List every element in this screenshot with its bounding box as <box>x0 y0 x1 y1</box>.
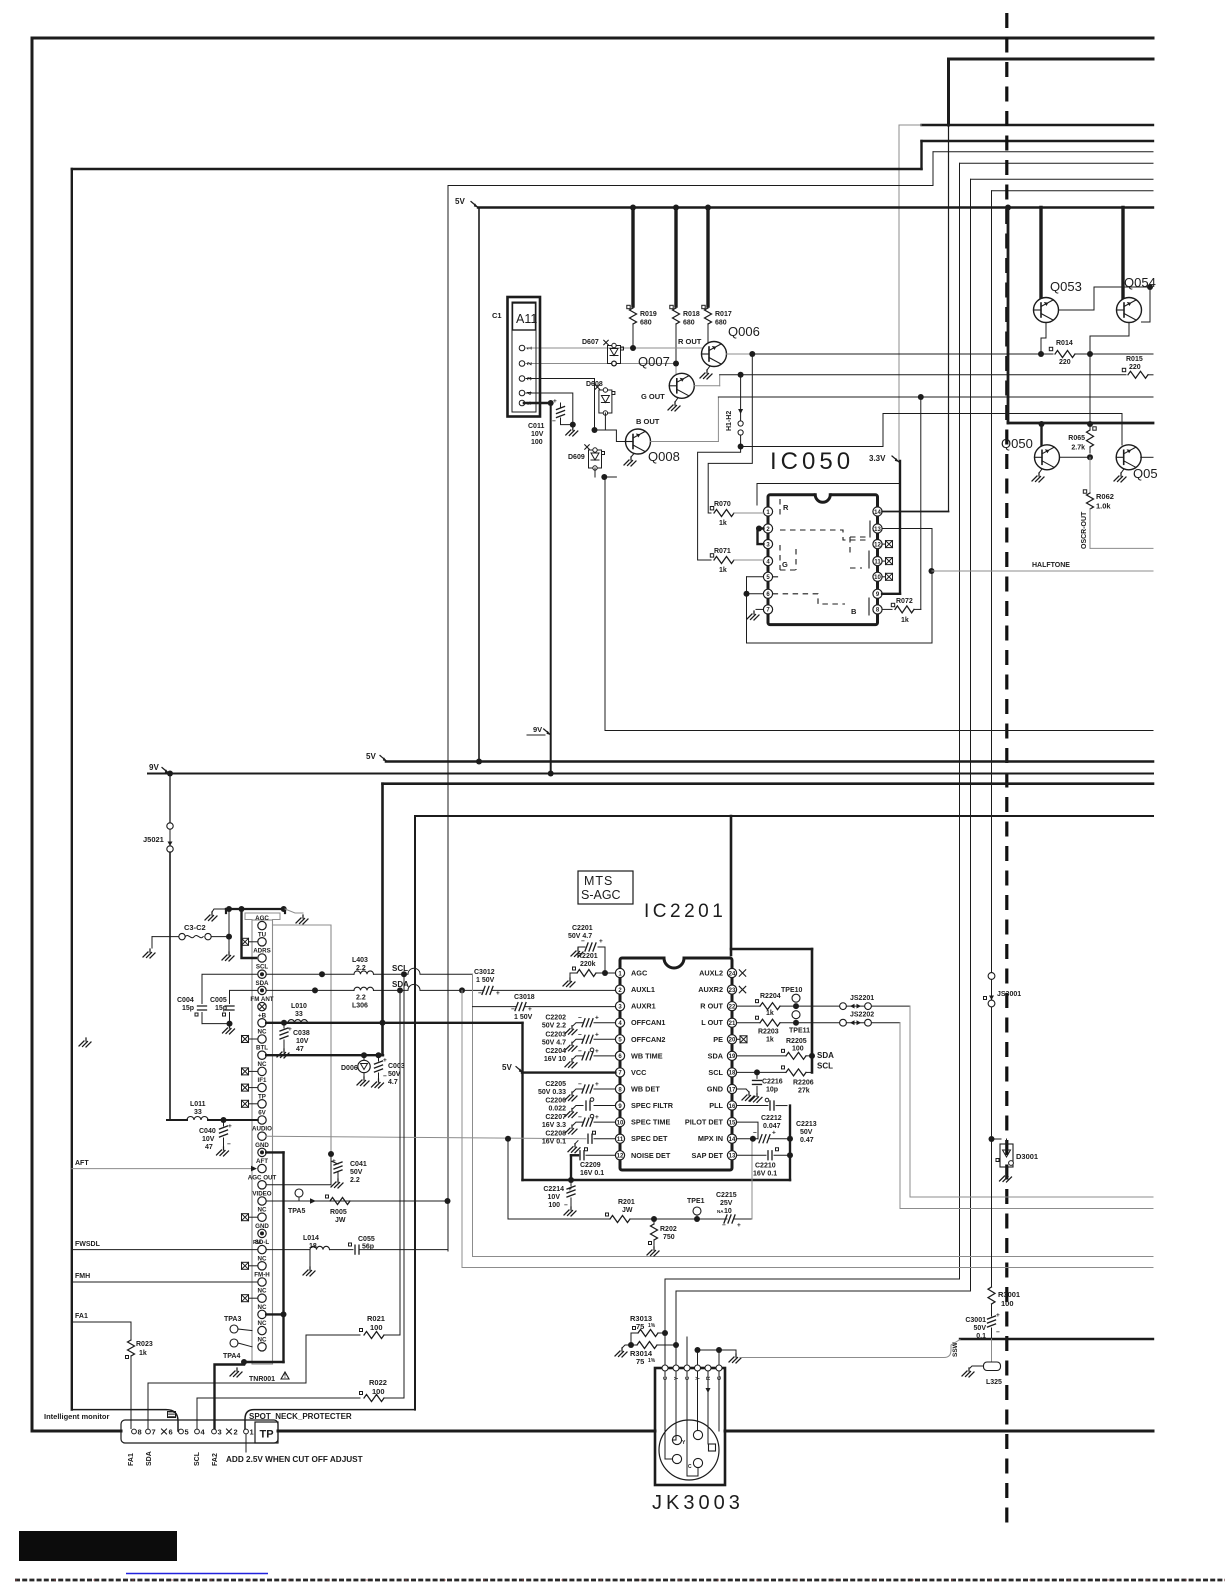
svg-text:C2208: C2208 <box>545 1131 566 1138</box>
svg-text:14: 14 <box>729 1137 736 1143</box>
svg-text:+: + <box>595 1114 599 1121</box>
svg-text:NC: NC <box>258 1207 267 1214</box>
svg-text:16V 0.1: 16V 0.1 <box>580 1170 604 1177</box>
svg-text:SDA: SDA <box>817 1051 834 1060</box>
svg-text:2.2: 2.2 <box>356 995 366 1002</box>
svg-text:+: + <box>496 990 500 997</box>
svg-text:GND: GND <box>255 1142 269 1149</box>
svg-text:21: 21 <box>729 1021 736 1027</box>
svg-text:R: R <box>783 503 789 512</box>
svg-text:C2206: C2206 <box>545 1098 566 1105</box>
svg-text:L OUT: L OUT <box>701 1018 723 1027</box>
svg-text:13: 13 <box>874 527 881 533</box>
svg-text:17: 17 <box>729 1087 736 1093</box>
svg-text:10: 10 <box>874 575 881 581</box>
svg-text:15p: 15p <box>182 1005 194 1012</box>
svg-text:JS3001: JS3001 <box>997 991 1021 998</box>
svg-text:+: + <box>332 1158 336 1165</box>
svg-text:JS2201: JS2201 <box>850 995 874 1002</box>
svg-text:NOISE DET: NOISE DET <box>631 1151 671 1160</box>
svg-text:+: + <box>772 1130 776 1137</box>
svg-text:C2215: C2215 <box>716 1192 737 1199</box>
svg-text:−: − <box>552 418 556 425</box>
svg-text:L014: L014 <box>303 1235 319 1242</box>
svg-text:ADRS: ADRS <box>253 948 271 955</box>
svg-text:1k: 1k <box>766 1037 774 1044</box>
svg-text:TPA5: TPA5 <box>288 1208 305 1215</box>
svg-text:GND: GND <box>707 1084 723 1093</box>
svg-text:SDA: SDA <box>708 1051 724 1060</box>
svg-text:14: 14 <box>874 510 881 516</box>
svg-text:+: + <box>595 1081 599 1088</box>
svg-text:SCL: SCL <box>392 964 408 973</box>
svg-text:75: 75 <box>636 1322 644 1331</box>
svg-text:+: + <box>553 398 557 405</box>
svg-text:Q006: Q006 <box>728 324 760 339</box>
svg-text:R018: R018 <box>683 311 700 318</box>
svg-text:C2205: C2205 <box>545 1081 566 1088</box>
svg-text:C2213: C2213 <box>796 1121 817 1128</box>
svg-text:33: 33 <box>194 1109 202 1116</box>
svg-text:TPE10: TPE10 <box>781 987 803 994</box>
svg-text:4.7: 4.7 <box>388 1079 398 1086</box>
svg-text:OSCR-OUT: OSCR-OUT <box>1081 511 1088 549</box>
svg-text:C004: C004 <box>177 997 194 1004</box>
svg-text:FM ANT: FM ANT <box>250 996 273 1003</box>
svg-text:15p: 15p <box>215 1005 227 1012</box>
svg-text:IF1: IF1 <box>258 1077 267 1084</box>
svg-text:C: C <box>663 1376 669 1380</box>
svg-text:Q050: Q050 <box>1001 436 1033 451</box>
svg-text:R OUT: R OUT <box>700 1002 723 1011</box>
svg-text:R021: R021 <box>367 1314 385 1323</box>
svg-text:C040: C040 <box>199 1128 216 1135</box>
svg-text:NC: NC <box>258 1029 267 1036</box>
svg-text:−: − <box>578 1031 582 1038</box>
svg-text:1k: 1k <box>719 520 727 527</box>
svg-text:ADD 2.5V WHEN CUT OFF ADJUST: ADD 2.5V WHEN CUT OFF ADJUST <box>226 1455 363 1464</box>
svg-text:C3012: C3012 <box>474 969 495 976</box>
svg-text:TP: TP <box>258 1093 266 1100</box>
svg-text:5V: 5V <box>502 1063 512 1072</box>
svg-text:FA1: FA1 <box>128 1453 135 1466</box>
svg-text:WB DET: WB DET <box>631 1084 660 1093</box>
svg-text:HALFTONE: HALFTONE <box>1032 562 1070 569</box>
svg-text:C2207: C2207 <box>545 1114 566 1121</box>
svg-text:Q05: Q05 <box>1133 466 1158 481</box>
svg-text:0.022: 0.022 <box>548 1106 566 1113</box>
svg-text:GND: GND <box>255 1223 269 1230</box>
svg-text:H1-H2: H1-H2 <box>726 411 733 431</box>
svg-text:100: 100 <box>548 1202 560 1209</box>
svg-text:680: 680 <box>715 320 727 327</box>
svg-text:C038: C038 <box>293 1030 310 1037</box>
svg-text:−: − <box>227 1141 231 1148</box>
svg-text:FM: FM <box>253 1240 261 1246</box>
svg-text:−: − <box>478 990 482 997</box>
svg-text:R015: R015 <box>1126 356 1143 363</box>
svg-text:2.2: 2.2 <box>356 965 366 972</box>
svg-text:R023: R023 <box>136 1341 153 1348</box>
svg-text:R017: R017 <box>715 311 732 318</box>
svg-text:B: B <box>851 607 857 616</box>
svg-text:S-AGC: S-AGC <box>581 888 621 902</box>
svg-text:C041: C041 <box>350 1161 367 1168</box>
svg-text:10V: 10V <box>202 1136 215 1143</box>
svg-text:SDA: SDA <box>255 980 269 987</box>
svg-text:220: 220 <box>1129 364 1141 371</box>
svg-text:2.7k: 2.7k <box>1071 445 1085 452</box>
svg-text:R072: R072 <box>896 598 913 605</box>
svg-text:R062: R062 <box>1096 492 1114 501</box>
svg-text:SDA: SDA <box>146 1451 153 1466</box>
svg-text:−: − <box>578 1015 582 1022</box>
svg-text:50V 4.7: 50V 4.7 <box>542 1039 566 1046</box>
svg-text:R3001: R3001 <box>998 1290 1020 1299</box>
svg-text:7: 7 <box>152 1428 156 1437</box>
svg-text:IC2201: IC2201 <box>644 901 726 922</box>
svg-text:13: 13 <box>729 1154 736 1160</box>
svg-text:10V: 10V <box>548 1194 561 1201</box>
svg-text:FA1: FA1 <box>75 1313 88 1320</box>
svg-text:SSW: SSW <box>952 1341 959 1357</box>
svg-text:C2202: C2202 <box>545 1015 566 1022</box>
svg-text:−: − <box>753 1130 757 1137</box>
svg-text:50V: 50V <box>974 1325 987 1332</box>
svg-text:SPEC FILTR: SPEC FILTR <box>631 1101 674 1110</box>
svg-text:+: + <box>383 1057 387 1064</box>
svg-text:SPEC TIME: SPEC TIME <box>631 1118 670 1127</box>
svg-text:R OUT: R OUT <box>678 337 702 346</box>
svg-text:C: C <box>685 1376 691 1380</box>
svg-text:50V 0.33: 50V 0.33 <box>538 1089 566 1096</box>
svg-text:!: ! <box>284 1374 286 1380</box>
svg-text:16V 0.1: 16V 0.1 <box>753 1170 777 1177</box>
svg-text:R2206: R2206 <box>793 1079 814 1086</box>
svg-text:1: 1 <box>250 1428 254 1437</box>
svg-text:AUXR2: AUXR2 <box>698 985 723 994</box>
svg-text:C005: C005 <box>210 997 227 1004</box>
svg-text:PILOT DET: PILOT DET <box>685 1118 724 1127</box>
svg-text:75: 75 <box>636 1357 644 1366</box>
svg-text:1k: 1k <box>901 617 909 624</box>
svg-text:R2205: R2205 <box>786 1038 807 1045</box>
svg-text:BTL: BTL <box>256 1045 268 1052</box>
svg-text:R019: R019 <box>640 311 657 318</box>
svg-text:MTS: MTS <box>584 874 613 888</box>
svg-text:C2203: C2203 <box>545 1031 566 1038</box>
svg-text:16: 16 <box>729 1104 736 1110</box>
svg-text:47: 47 <box>205 1144 213 1151</box>
svg-text:18: 18 <box>309 1243 317 1250</box>
svg-text:D006: D006 <box>341 1065 358 1072</box>
svg-text:2: 2 <box>527 362 534 366</box>
svg-text:C3001: C3001 <box>965 1317 986 1324</box>
svg-text:+: + <box>568 1186 572 1193</box>
svg-text:50V 4.7: 50V 4.7 <box>568 933 592 940</box>
svg-text:3: 3 <box>218 1428 222 1437</box>
svg-text:10V: 10V <box>296 1038 309 1045</box>
svg-text:1.0k: 1.0k <box>1096 502 1111 511</box>
svg-text:+: + <box>595 1015 599 1022</box>
svg-text:C: C <box>688 1464 692 1470</box>
svg-text:R022: R022 <box>369 1378 387 1387</box>
svg-text:D609: D609 <box>568 454 585 461</box>
svg-text:19: 19 <box>729 1054 736 1060</box>
svg-text:TP: TP <box>260 1429 274 1441</box>
svg-text:IC050: IC050 <box>770 448 854 475</box>
svg-text:R2204: R2204 <box>760 993 781 1000</box>
svg-text:R202: R202 <box>660 1226 677 1233</box>
svg-text:TPA3: TPA3 <box>224 1316 241 1323</box>
svg-text:11: 11 <box>617 1137 624 1143</box>
svg-text:100: 100 <box>531 439 543 446</box>
svg-text:+: + <box>595 1048 599 1055</box>
svg-text:1: 1 <box>527 346 534 350</box>
svg-text:L011: L011 <box>190 1101 206 1108</box>
svg-text:VIDEO: VIDEO <box>252 1191 271 1198</box>
svg-text:+: + <box>228 1123 232 1130</box>
svg-text:+: + <box>288 1026 292 1033</box>
svg-text:D3001: D3001 <box>1016 1152 1038 1161</box>
svg-text:C3018: C3018 <box>514 994 535 1001</box>
svg-text:R065: R065 <box>1068 435 1085 442</box>
svg-text:TPE1: TPE1 <box>687 1198 705 1205</box>
svg-text:1k: 1k <box>766 1010 774 1017</box>
svg-text:R071: R071 <box>714 548 731 555</box>
svg-text:NC: NC <box>258 1061 267 1068</box>
svg-text:22: 22 <box>729 1004 736 1010</box>
svg-text:SAP DET: SAP DET <box>692 1151 724 1160</box>
svg-text:+: + <box>996 1312 1000 1319</box>
svg-text:16V 10: 16V 10 <box>544 1056 566 1063</box>
svg-text:L325: L325 <box>986 1379 1002 1386</box>
svg-text:Q008: Q008 <box>648 449 680 464</box>
svg-text:15: 15 <box>729 1120 736 1126</box>
svg-text:100: 100 <box>372 1387 385 1396</box>
svg-text:SCL: SCL <box>817 1061 833 1070</box>
svg-text:G: G <box>717 1376 723 1380</box>
svg-text:FM-H: FM-H <box>254 1272 270 1279</box>
svg-text:R201: R201 <box>618 1199 635 1206</box>
svg-text:6: 6 <box>169 1428 173 1437</box>
svg-text:+B: +B <box>258 1012 267 1019</box>
svg-text:1k: 1k <box>719 567 727 574</box>
svg-text:10V: 10V <box>531 431 544 438</box>
svg-text:50V: 50V <box>800 1129 813 1136</box>
svg-text:+: + <box>599 938 603 945</box>
svg-text:5V: 5V <box>455 197 465 206</box>
svg-text:B OUT: B OUT <box>636 417 660 426</box>
svg-text:A11: A11 <box>516 312 537 326</box>
svg-text:11: 11 <box>874 559 881 565</box>
svg-text:C2209: C2209 <box>580 1162 601 1169</box>
svg-text:FMH: FMH <box>75 1273 90 1280</box>
svg-text:−: − <box>578 1048 582 1055</box>
svg-text:1 50V: 1 50V <box>514 1014 533 1021</box>
svg-text:24: 24 <box>729 971 736 977</box>
svg-text:TPE11: TPE11 <box>789 1028 810 1035</box>
svg-text:FWSDL: FWSDL <box>75 1241 101 1248</box>
svg-text:−: − <box>578 1114 582 1121</box>
svg-text:C2216: C2216 <box>762 1078 783 1085</box>
svg-text:8: 8 <box>138 1428 142 1437</box>
svg-text:FA2: FA2 <box>212 1453 219 1466</box>
svg-text:NC: NC <box>258 1304 267 1311</box>
svg-text:12: 12 <box>874 542 881 548</box>
svg-text:L306: L306 <box>352 1003 368 1010</box>
svg-text:OFFCAN1: OFFCAN1 <box>631 1018 665 1027</box>
svg-text:AGC OUT: AGC OUT <box>248 1174 277 1181</box>
svg-text:TPA4: TPA4 <box>223 1353 240 1360</box>
svg-text:OFFCAN2: OFFCAN2 <box>631 1035 665 1044</box>
svg-text:AUXL1: AUXL1 <box>631 985 655 994</box>
svg-text:16V 0.1: 16V 0.1 <box>542 1139 566 1146</box>
svg-text:18: 18 <box>729 1071 736 1077</box>
svg-text:NC: NC <box>258 1320 267 1327</box>
svg-text:C2201: C2201 <box>572 925 593 932</box>
svg-text:3.3V: 3.3V <box>869 454 886 463</box>
svg-text:AUXL2: AUXL2 <box>699 969 723 978</box>
svg-text:C2204: C2204 <box>545 1048 566 1055</box>
svg-text:20: 20 <box>729 1038 736 1044</box>
svg-text:220k: 220k <box>580 961 596 968</box>
svg-text:50V 2.2: 50V 2.2 <box>542 1023 566 1030</box>
svg-text:47: 47 <box>296 1046 304 1053</box>
svg-text:23: 23 <box>729 988 736 994</box>
svg-text:MPX IN: MPX IN <box>698 1134 723 1143</box>
svg-text:220: 220 <box>1059 359 1071 366</box>
svg-text:2.2: 2.2 <box>350 1177 360 1184</box>
svg-text:JS2202: JS2202 <box>850 1012 874 1019</box>
svg-text:JK3003: JK3003 <box>652 1492 744 1514</box>
svg-text:WB TIME: WB TIME <box>631 1051 663 1060</box>
svg-text:50V: 50V <box>350 1169 363 1176</box>
svg-text:AFT: AFT <box>256 1158 268 1165</box>
svg-text:10p: 10p <box>766 1086 778 1093</box>
svg-text:C2212: C2212 <box>761 1115 782 1122</box>
svg-text:C1: C1 <box>492 311 502 320</box>
svg-text:2: 2 <box>234 1428 238 1437</box>
svg-text:Q007: Q007 <box>638 354 670 369</box>
svg-text:JW: JW <box>335 1217 346 1224</box>
svg-text:AGC: AGC <box>631 969 648 978</box>
svg-text:10: 10 <box>724 1208 732 1215</box>
svg-text:NC: NC <box>258 1288 267 1295</box>
svg-text:R2203: R2203 <box>758 1029 779 1036</box>
svg-text:−: − <box>511 1006 515 1013</box>
svg-text:100: 100 <box>792 1045 804 1052</box>
svg-text:25V: 25V <box>720 1200 733 1207</box>
svg-text:−: − <box>996 1329 1000 1336</box>
svg-text:6V: 6V <box>258 1110 266 1117</box>
svg-text:16V 3.3: 16V 3.3 <box>542 1122 566 1129</box>
svg-text:VCC: VCC <box>631 1068 647 1077</box>
svg-text:100: 100 <box>370 1323 383 1332</box>
svg-text:50V: 50V <box>388 1071 401 1078</box>
svg-text:PLL: PLL <box>709 1101 723 1110</box>
svg-text:TU: TU <box>258 931 267 938</box>
svg-text:5V: 5V <box>366 752 376 761</box>
svg-text:G: G <box>782 560 788 569</box>
svg-text:J5021: J5021 <box>143 835 164 844</box>
svg-text:R070: R070 <box>714 501 731 508</box>
svg-text:AGC: AGC <box>255 915 269 922</box>
svg-text:C055: C055 <box>358 1236 375 1243</box>
svg-text:SCL: SCL <box>256 964 269 971</box>
svg-text:R005: R005 <box>330 1209 347 1216</box>
svg-text:SCL: SCL <box>708 1068 723 1077</box>
svg-text:−: − <box>578 1081 582 1088</box>
svg-text:R: R <box>706 1376 712 1380</box>
svg-text:JW: JW <box>622 1207 633 1214</box>
svg-text:NC: NC <box>258 1336 267 1343</box>
svg-text:NC: NC <box>258 1255 267 1262</box>
svg-text:D608: D608 <box>586 381 603 388</box>
svg-text:R014: R014 <box>1056 340 1073 347</box>
svg-text:12: 12 <box>617 1154 624 1160</box>
svg-text:C011: C011 <box>528 423 544 430</box>
svg-text:5: 5 <box>185 1428 189 1437</box>
svg-text:9V: 9V <box>533 725 542 734</box>
svg-text:1%: 1% <box>648 1323 656 1329</box>
svg-text:0.47: 0.47 <box>800 1137 814 1144</box>
svg-text:9V: 9V <box>149 763 159 772</box>
svg-text:SCL: SCL <box>194 1451 201 1466</box>
svg-text:Q053: Q053 <box>1050 279 1082 294</box>
svg-text:+: + <box>595 1031 599 1038</box>
svg-text:+: + <box>737 1222 741 1229</box>
svg-text:33: 33 <box>295 1011 303 1018</box>
svg-text:1k: 1k <box>139 1350 147 1357</box>
svg-text:AUDIO: AUDIO <box>252 1126 272 1133</box>
svg-text:TNR001: TNR001 <box>249 1376 275 1383</box>
svg-text:1%: 1% <box>648 1358 656 1364</box>
svg-text:L010: L010 <box>291 1003 307 1010</box>
svg-text:SPEC DET: SPEC DET <box>631 1134 668 1143</box>
svg-text:C2214: C2214 <box>543 1186 564 1193</box>
svg-text:Intelligent monitor: Intelligent monitor <box>44 1412 109 1421</box>
svg-text:−: − <box>383 1073 387 1080</box>
svg-text:−: − <box>722 1222 726 1229</box>
svg-text:680: 680 <box>683 320 695 327</box>
svg-text:680: 680 <box>640 320 652 327</box>
svg-text:R2201: R2201 <box>577 953 598 960</box>
svg-text:PE: PE <box>713 1035 723 1044</box>
svg-text:C003: C003 <box>388 1063 405 1070</box>
svg-text:SDA: SDA <box>392 980 409 989</box>
svg-text:10: 10 <box>617 1120 624 1126</box>
svg-text:750: 750 <box>663 1234 675 1241</box>
svg-text:G OUT: G OUT <box>641 392 665 401</box>
svg-text:C3-C2: C3-C2 <box>184 923 206 932</box>
svg-text:AFT: AFT <box>75 1160 89 1167</box>
svg-text:−: − <box>564 1202 568 1209</box>
svg-text:L403: L403 <box>352 957 368 964</box>
svg-text:D607: D607 <box>582 339 599 346</box>
svg-text:AUXR1: AUXR1 <box>631 1002 656 1011</box>
svg-text:1 50V: 1 50V <box>476 977 495 984</box>
svg-text:3: 3 <box>527 377 534 381</box>
svg-text:27k: 27k <box>798 1087 810 1094</box>
svg-text:100: 100 <box>1001 1299 1014 1308</box>
svg-text:C2210: C2210 <box>755 1162 776 1169</box>
